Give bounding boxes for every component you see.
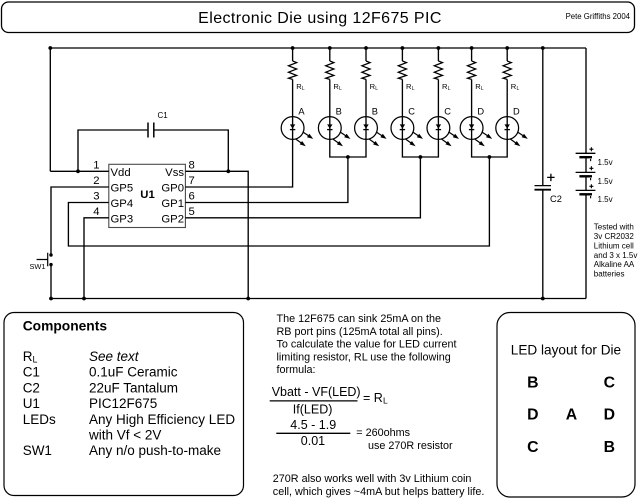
- wire battery cell link: [585, 177, 587, 191]
- wire +V rail to battery: [585, 48, 587, 153]
- svg-text:GP4: GP4: [111, 198, 134, 210]
- svg-text:SW1: SW1: [23, 443, 52, 458]
- formula equals RL: [363, 391, 388, 406]
- svg-text:Any High Efficiency LED: Any High Efficiency LED: [89, 412, 235, 427]
- svg-text:1.5v: 1.5v: [598, 158, 613, 167]
- LED layout box: [497, 313, 635, 498]
- svg-text:LEDs: LEDs: [23, 412, 56, 427]
- svg-text:Lithium cell: Lithium cell: [594, 241, 634, 250]
- component row C1: [23, 365, 178, 380]
- component row LEDs: [23, 412, 236, 427]
- junction C2 / +V rail: [541, 46, 545, 50]
- svg-text:C: C: [604, 374, 615, 391]
- junction C1 / Vss wire: [226, 169, 230, 173]
- junction RL3 / +V rail: [364, 46, 368, 50]
- wire LED A cathode to GP0 pin 7: [185, 139, 292, 187]
- svg-text:LED layout for Die: LED layout for Die: [511, 343, 621, 358]
- wire D bus to GP4 pin 3: [68, 157, 489, 246]
- svg-text:D: D: [477, 107, 484, 117]
- wire LED B pair cathode bus: [330, 139, 366, 157]
- U1 pin name GP3: [111, 213, 134, 225]
- svg-text:Alkaline AA: Alkaline AA: [594, 260, 635, 269]
- svg-text:A: A: [566, 407, 577, 424]
- LED letter label D: [477, 107, 484, 117]
- svg-text:3: 3: [93, 191, 99, 203]
- wire B bus to GP1 pin 6: [185, 157, 348, 203]
- svg-text:Vbatt - VF(LED): Vbatt - VF(LED): [272, 385, 361, 399]
- RL5 value label RL: [442, 82, 451, 92]
- LED A1: [281, 117, 313, 147]
- die pip label C: [604, 374, 615, 391]
- svg-text:cell, which gives ~4mA but hel: cell, which gives ~4mA but helps battery…: [273, 486, 485, 498]
- U1 pin number 3: [93, 191, 99, 203]
- formula result text: [356, 427, 453, 452]
- capacitor C1: [148, 123, 154, 138]
- junction RL7 / +V rail: [505, 46, 509, 50]
- svg-text:C2: C2: [550, 194, 562, 204]
- svg-text:PIC12F675: PIC12F675: [89, 396, 157, 411]
- svg-text:If(LED): If(LED): [293, 403, 333, 417]
- wire LED D pair cathode bus: [472, 139, 508, 157]
- wire RL3 to LED B: [365, 79, 367, 116]
- U1 pin number 2: [93, 175, 99, 187]
- svg-text:GP1: GP1: [161, 198, 184, 210]
- svg-text:The 12F675 can sink 25mA on th: The 12F675 can sink 25mA on the: [277, 313, 441, 325]
- svg-text:Vdd: Vdd: [111, 167, 131, 179]
- component row continuation: [88, 428, 161, 443]
- svg-text:B: B: [527, 374, 538, 391]
- RL2 value label RL: [333, 82, 342, 92]
- wire switch to 0V rail: [50, 266, 52, 299]
- junction C bus: [419, 155, 423, 159]
- svg-text:A: A: [298, 107, 305, 117]
- wire C2 to 0V rail: [542, 191, 544, 299]
- note tested-with text: [594, 223, 638, 279]
- die pip label A: [566, 407, 577, 424]
- wire battery to 0V rail: [585, 195, 587, 299]
- title box: [2, 2, 635, 33]
- svg-text:GP5: GP5: [111, 183, 134, 195]
- junction D bus: [488, 155, 492, 159]
- U1 pin name GP0: [161, 183, 184, 195]
- svg-text:Electronic Die using 12F675 PI: Electronic Die using 12F675 PIC: [198, 10, 442, 27]
- wire GP5 pin 2 to switch: [51, 187, 109, 254]
- LED D7: [496, 117, 528, 147]
- resistor RL5: [434, 61, 442, 79]
- die pip label B: [604, 439, 615, 456]
- wire +V rail to RL7: [506, 48, 508, 61]
- svg-text:GP3: GP3: [111, 213, 134, 225]
- svg-text:limiting resistor, RL use the: limiting resistor, RL use the following: [277, 351, 451, 363]
- svg-text:D: D: [527, 407, 538, 424]
- svg-text:= R: = R: [363, 391, 383, 405]
- wire +V rail to RL5: [437, 48, 439, 61]
- resistor RL6: [468, 61, 476, 79]
- svg-text:with Vf < 2V: with Vf < 2V: [88, 428, 161, 443]
- svg-text:Components: Components: [23, 319, 108, 334]
- U1 pin name Vss: [165, 167, 184, 179]
- wire +V rail to RL6: [471, 48, 473, 61]
- battery cell label 1.5v: [598, 195, 613, 204]
- svg-text:L: L: [448, 86, 451, 92]
- LED letter label B: [372, 107, 378, 117]
- svg-text:7: 7: [189, 175, 195, 187]
- formula Vbatt fraction: [270, 385, 361, 417]
- wire +V rail to RL3: [365, 48, 367, 61]
- svg-text:4.5 - 1.9: 4.5 - 1.9: [290, 418, 336, 432]
- svg-text:B: B: [604, 439, 615, 456]
- component row U1: [23, 396, 158, 411]
- IC U1 PIC12F675 body: [109, 164, 186, 227]
- battery cell BT1 1.5v: [576, 147, 596, 161]
- SW1 reference label: [30, 262, 46, 271]
- wire left vertical from +V rail to Vdd: [49, 48, 51, 171]
- svg-text:= 260ohms: = 260ohms: [356, 427, 410, 439]
- svg-text:L: L: [383, 396, 388, 406]
- junction B bus: [346, 155, 350, 159]
- LED B2: [318, 117, 350, 147]
- resistor RL7: [503, 61, 511, 79]
- battery cell label 1.5v: [598, 177, 613, 186]
- svg-text:C: C: [444, 107, 451, 117]
- wire GP3 pin 4 to 0V rail: [84, 218, 109, 299]
- LED layout heading: [511, 343, 621, 358]
- wire RL4 to LED C: [401, 79, 403, 116]
- LED letter label B: [336, 107, 342, 117]
- svg-text:L: L: [302, 86, 305, 92]
- junction Vdd / C1 branch: [76, 169, 80, 173]
- die pip label B: [527, 374, 538, 391]
- wire C1 left leg: [78, 130, 147, 171]
- svg-text:4: 4: [93, 206, 99, 218]
- U1 pin number 7: [189, 175, 195, 187]
- die pip label C: [527, 439, 538, 456]
- svg-text:To calculate the value for LED: To calculate the value for LED current: [277, 339, 457, 351]
- svg-text:Vss: Vss: [165, 167, 184, 179]
- junction RL1 / +V rail: [291, 46, 295, 50]
- note 270R paragraph: [273, 473, 485, 498]
- wire RL7 to LED D: [506, 79, 508, 116]
- wire C1 right leg: [155, 130, 229, 171]
- component row SW1: [23, 443, 221, 458]
- RL4 value label RL: [406, 82, 415, 92]
- wire RL1 to LED A: [292, 79, 294, 116]
- svg-text:Pete Griffiths 2004: Pete Griffiths 2004: [566, 12, 631, 21]
- note sink current paragraph: [277, 313, 457, 376]
- svg-text:1: 1: [93, 160, 99, 172]
- C2 plus sign: [547, 174, 554, 181]
- svg-text:C1: C1: [158, 111, 169, 120]
- svg-text:2: 2: [93, 175, 99, 187]
- RL7 value label RL: [511, 82, 520, 92]
- U1 pin name GP2: [161, 213, 184, 225]
- wire Vdd pin 1: [50, 170, 109, 172]
- svg-text:L: L: [375, 86, 378, 92]
- svg-text:batteries: batteries: [594, 270, 625, 279]
- svg-text:C2: C2: [23, 380, 40, 395]
- junction RL2 / +V rail: [328, 46, 332, 50]
- junction SW1 / 0V rail: [49, 297, 53, 301]
- formula numeric fraction: [276, 418, 350, 448]
- junction C2 / 0V rail: [541, 297, 545, 301]
- svg-text:C: C: [408, 107, 415, 117]
- svg-text:GP0: GP0: [161, 183, 184, 195]
- svg-text:L: L: [517, 86, 520, 92]
- RL6 value label RL: [475, 82, 484, 92]
- components list box: [4, 313, 244, 496]
- svg-text:use 270R resistor: use 270R resistor: [368, 440, 453, 452]
- wire +V rail to RL2: [329, 48, 331, 61]
- wire Vss pin 8 to 0V rail: [185, 171, 248, 298]
- junction RL5 / +V rail: [437, 46, 441, 50]
- junction top-left corner: [48, 46, 52, 50]
- die pip label D: [604, 407, 615, 424]
- die pip label D: [527, 407, 538, 424]
- wire C bus to GP2 pin 5: [185, 157, 420, 218]
- C2 value label: [550, 194, 562, 204]
- wire RL5 to LED C: [437, 79, 439, 116]
- LED C4: [391, 117, 423, 147]
- resistor RL1: [289, 61, 297, 79]
- junction RL4 / +V rail: [401, 46, 405, 50]
- U1 pin number 6: [189, 191, 195, 203]
- LED B3: [355, 117, 387, 147]
- svg-text:L: L: [412, 86, 415, 92]
- svg-text:Any n/o push-to-make: Any n/o push-to-make: [89, 443, 221, 458]
- component row C2: [23, 380, 178, 395]
- svg-text:D: D: [513, 107, 520, 117]
- svg-text:6: 6: [189, 191, 195, 203]
- wire bottom 0V rail: [51, 298, 586, 300]
- svg-text:L: L: [481, 86, 484, 92]
- svg-text:formula:: formula:: [277, 364, 316, 376]
- wire +V rail to C2: [542, 48, 544, 185]
- wire +V rail to RL4: [401, 48, 403, 61]
- wire RL6 to LED D: [471, 79, 473, 116]
- U1 pin name GP5: [111, 183, 134, 195]
- junction RL6 / +V rail: [470, 46, 474, 50]
- author label: [566, 12, 631, 21]
- junction Vss / 0V rail: [246, 297, 250, 301]
- U1 pin name GP1: [161, 198, 184, 210]
- svg-text:0.01: 0.01: [301, 434, 325, 448]
- LED D6: [460, 117, 492, 147]
- U1 pin name GP4: [111, 198, 134, 210]
- svg-text:L: L: [339, 86, 342, 92]
- svg-text:1.5v: 1.5v: [598, 195, 613, 204]
- title text: [198, 10, 442, 27]
- capacitor C2 polarised: [535, 186, 552, 190]
- LED C5: [427, 117, 459, 147]
- svg-text:270R also works well with 3v L: 270R also works well with 3v Lithium coi…: [273, 473, 472, 485]
- svg-text:3v CR2032: 3v CR2032: [594, 232, 635, 241]
- switch SW1 push-to-make: [37, 253, 53, 266]
- svg-text:B: B: [336, 107, 342, 117]
- components heading: [23, 319, 108, 334]
- battery cell BT2 1.5v: [576, 166, 596, 180]
- U1 pin number 1: [93, 160, 99, 172]
- battery cell label 1.5v: [598, 158, 613, 167]
- svg-text:SW1: SW1: [30, 262, 46, 271]
- svg-text:U1: U1: [140, 189, 154, 201]
- resistor RL4: [398, 61, 406, 79]
- wire battery cell link: [585, 158, 587, 173]
- svg-text:5: 5: [189, 206, 195, 218]
- component row RL: [23, 349, 140, 365]
- svg-text:and 3 x 1.5v: and 3 x 1.5v: [594, 251, 638, 260]
- svg-text:D: D: [604, 407, 615, 424]
- svg-text:B: B: [372, 107, 378, 117]
- U1 pin name Vdd: [111, 167, 131, 179]
- C1 value label: [158, 111, 169, 120]
- svg-text:L: L: [33, 355, 38, 365]
- svg-text:1.5v: 1.5v: [598, 177, 613, 186]
- U1 pin number 4: [93, 206, 99, 218]
- svg-text:C1: C1: [23, 365, 40, 380]
- svg-text:RB port pins (125mA total all: RB port pins (125mA total all pins).: [277, 326, 443, 338]
- svg-text:GP2: GP2: [161, 213, 184, 225]
- svg-text:8: 8: [189, 160, 195, 172]
- svg-text:0.1uF Ceramic: 0.1uF Ceramic: [89, 365, 178, 380]
- U1 reference label: [140, 189, 154, 201]
- LED letter label C: [408, 107, 415, 117]
- LED letter label A: [298, 107, 305, 117]
- svg-text:22uF Tantalum: 22uF Tantalum: [89, 380, 178, 395]
- svg-text:C: C: [527, 439, 538, 456]
- battery cell BT3 1.5v: [576, 184, 596, 198]
- U1 pin number 5: [189, 206, 195, 218]
- resistor RL3: [362, 61, 370, 79]
- wire +V rail to RL1: [292, 48, 294, 61]
- RL3 value label RL: [370, 82, 379, 92]
- svg-text:See text: See text: [89, 349, 140, 364]
- svg-text:U1: U1: [23, 396, 40, 411]
- resistor RL2: [326, 61, 334, 79]
- wire top +V rail: [50, 47, 586, 49]
- U1 pin number 8: [189, 160, 195, 172]
- wire RL2 to LED B: [329, 79, 331, 116]
- wire LED C pair cathode bus: [402, 139, 438, 157]
- svg-text:Tested with: Tested with: [594, 223, 634, 232]
- RL1 value label RL: [296, 82, 305, 92]
- junction GP3 / 0V rail: [82, 297, 86, 301]
- LED letter label D: [513, 107, 520, 117]
- svg-text:R: R: [23, 349, 33, 364]
- LED letter label C: [444, 107, 451, 117]
